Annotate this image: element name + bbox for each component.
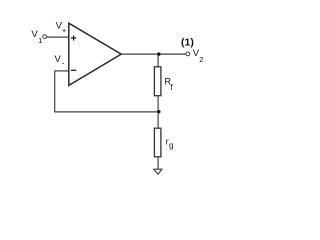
svg-text:1: 1 — [38, 36, 42, 45]
svg-text:+: + — [62, 26, 67, 35]
svg-text:g: g — [169, 141, 173, 150]
svg-text:V: V — [55, 54, 62, 65]
svg-text:2: 2 — [199, 55, 203, 64]
svg-text:(1): (1) — [181, 37, 194, 49]
